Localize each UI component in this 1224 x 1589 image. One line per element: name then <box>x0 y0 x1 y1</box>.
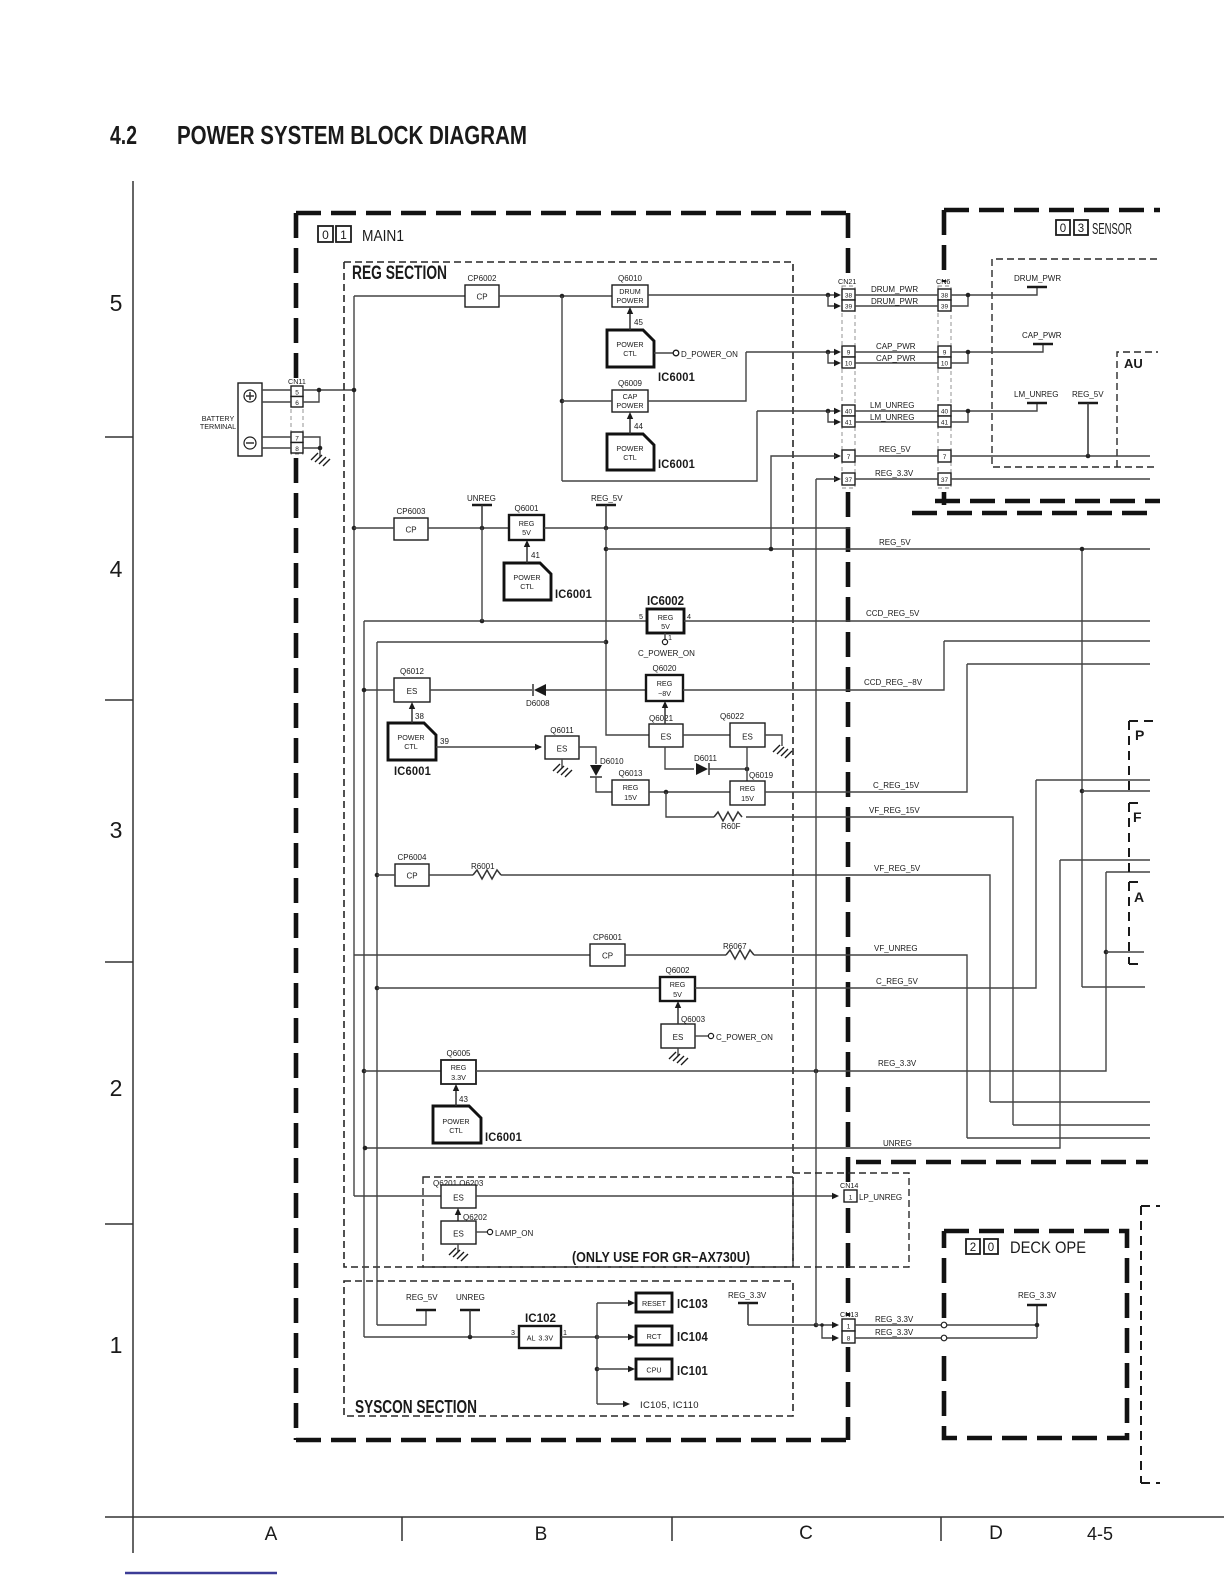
svg-text:CP6004: CP6004 <box>398 853 427 862</box>
svg-text:CN6: CN6 <box>936 277 950 286</box>
svg-text:ES: ES <box>407 687 418 696</box>
svg-text:LM_UNREG: LM_UNREG <box>870 413 914 422</box>
block IC104 RCT <box>636 1326 672 1345</box>
svg-text:REG_5V: REG_5V <box>406 1293 438 1302</box>
AUDIO sub-box corner <box>1117 352 1158 467</box>
wire rail to CP6002 <box>354 295 465 297</box>
wire to RESET <box>597 1302 631 1304</box>
node C_POWER_ON terminal a <box>662 639 667 644</box>
svg-text:DRUM_PWR: DRUM_PWR <box>871 285 918 294</box>
wire Q6009 output to cap riser <box>648 352 746 401</box>
svg-text:IC6001: IC6001 <box>394 766 431 778</box>
wire pin8 to ground <box>303 448 320 457</box>
connector CN6 <box>936 277 951 488</box>
svg-text:−8V: −8V <box>658 689 671 698</box>
svg-text:40: 40 <box>845 409 853 416</box>
svg-text:A: A <box>1134 889 1144 905</box>
svg-text:Q6020: Q6020 <box>652 664 677 673</box>
svg-text:4: 4 <box>110 556 123 582</box>
wire CN13 pin1 to deck <box>855 1324 1037 1326</box>
regulator Q6020 <box>646 675 683 701</box>
wire unreg rail into syscon <box>364 1336 519 1338</box>
svg-text:37: 37 <box>941 477 949 484</box>
op-amp U-ctl IC6001 power ctl 38 <box>388 723 436 760</box>
svg-text:TERMINAL: TERMINAL <box>200 422 236 431</box>
wire vf_unreg <box>754 955 967 1138</box>
node C_POWER_ON terminal b <box>708 1033 713 1038</box>
left ruler line <box>132 181 134 1553</box>
svg-text:4-5: 4-5 <box>1087 1524 1113 1544</box>
svg-text:REG: REG <box>740 784 756 793</box>
lower-right cut board dashed box <box>1141 1206 1160 1483</box>
wire Q6201 out lp_unreg <box>476 1195 835 1197</box>
diode D6008 <box>533 684 546 696</box>
svg-text:DRUM_PWR: DRUM_PWR <box>1014 274 1061 283</box>
node reg5v out tap <box>604 547 609 552</box>
resistor R6067 <box>726 950 754 959</box>
svg-text:0: 0 <box>988 1242 994 1254</box>
svg-text:REG_5V: REG_5V <box>879 538 911 547</box>
svg-text:B: B <box>535 1524 548 1545</box>
svg-text:AL 3.3V: AL 3.3V <box>527 1334 554 1343</box>
wire Q6003 gnd stem <box>677 1048 679 1056</box>
svg-text:Q6001: Q6001 <box>514 504 539 513</box>
board ref 03 squares <box>1056 220 1088 235</box>
wire CN13 pin8 to deck <box>855 1337 1037 1339</box>
power symbol LM_UNREG <box>1027 402 1047 404</box>
wire cn6 reg33 out <box>951 478 1150 480</box>
wire Q6019 out c_reg_15v <box>765 664 967 792</box>
wire ctl45 to D_POWER_ON <box>654 352 673 354</box>
wire cn21-cn6 drum b <box>855 305 938 307</box>
wire lm_unreg loop <box>562 411 757 481</box>
node q6012 tap <box>362 688 367 693</box>
board MAIN1 dashed border <box>296 213 848 1440</box>
svg-text:Q6012: Q6012 <box>400 667 425 676</box>
svg-text:CP: CP <box>405 526 416 535</box>
svg-text:REG SECTION: REG SECTION <box>352 263 447 284</box>
ruler tick cC <box>940 1517 942 1541</box>
wire Q6001 output <box>544 527 850 529</box>
diode D6011 <box>696 763 709 775</box>
power symbol deck REG_3.3V <box>1027 1304 1047 1306</box>
svg-text:3: 3 <box>110 817 123 843</box>
svg-text:ES: ES <box>661 733 672 742</box>
sub-box A bracket <box>1129 882 1144 964</box>
svg-text:CP6001: CP6001 <box>593 933 622 942</box>
wire lm_unreg to CN21 pin40 <box>757 410 836 412</box>
wire pin10 jog <box>828 352 836 363</box>
footer blue mark <box>125 1572 277 1575</box>
wire riser bottom out <box>1082 986 1145 988</box>
wire Q6020 out ccd-8v <box>683 641 944 690</box>
node pin41 branch <box>826 409 831 414</box>
wire Q6010 to CN21 pin38 <box>648 294 836 296</box>
svg-text:CPU: CPU <box>646 1366 661 1375</box>
svg-text:SENSOR: SENSOR <box>1092 221 1132 238</box>
wire rail to CP6003 <box>354 527 394 529</box>
wire Q6202 gnd stem <box>457 1244 459 1252</box>
node sensor vf tap <box>1104 950 1109 955</box>
svg-text:RESET: RESET <box>642 1299 667 1308</box>
svg-text:ES: ES <box>742 733 753 742</box>
svg-text:IC6001: IC6001 <box>658 459 695 471</box>
svg-text:REG: REG <box>519 519 535 528</box>
node drum join <box>966 293 971 298</box>
ruler tick cB <box>671 1517 673 1541</box>
wire deck reg3.3 stem <box>1036 1305 1038 1325</box>
svg-text:ES: ES <box>453 1230 464 1239</box>
wire unreg out <box>365 860 1060 1148</box>
transistor Q6010 drum power <box>612 285 648 307</box>
regulator Q6013 <box>612 780 649 805</box>
svg-text:Q6002: Q6002 <box>665 966 690 975</box>
node pin7 riser join <box>769 547 774 552</box>
wire CP6003 to Q6001 <box>428 527 509 529</box>
svg-text:POWER SYSTEM BLOCK DIAGRAM: POWER SYSTEM BLOCK DIAGRAM <box>177 120 527 150</box>
wire ctl43 drive arrow <box>455 1088 457 1106</box>
fuse CP6003 <box>394 518 428 540</box>
wire IC6002 out CCD_REG_5V <box>684 620 1150 622</box>
wire ctl41 drive arrow <box>526 544 528 563</box>
block IC103 RESET <box>636 1293 672 1312</box>
wire IC6002 pin1 stem <box>664 633 666 640</box>
svg-text:UNREG: UNREG <box>467 494 496 503</box>
svg-text:CN21: CN21 <box>838 277 856 286</box>
wire D6011 to Q6019 stem <box>709 768 747 770</box>
op-amp U-ctl IC6001 power ctl 43 <box>433 1106 481 1143</box>
wire vf_reg_5v exits right <box>990 1101 1150 1103</box>
node q6019 drive join <box>745 767 750 772</box>
wire vf_reg_15v <box>746 817 1013 1125</box>
node q6002 tap <box>375 986 380 991</box>
fuse CP6004 <box>395 864 429 886</box>
svg-text:LM_UNREG: LM_UNREG <box>870 401 914 410</box>
wire Q6013 to Q6019 <box>649 791 730 793</box>
wire pin7 jog down <box>303 437 320 448</box>
svg-text:CP: CP <box>602 952 613 961</box>
transistor Q6012 <box>394 678 430 702</box>
svg-text:C_REG_5V: C_REG_5V <box>876 977 918 986</box>
svg-text:44: 44 <box>634 422 643 431</box>
wire unreg rail vertical (battery feed) <box>353 296 355 1196</box>
wire CN13 pin8 jog <box>822 1325 835 1338</box>
ground q6003 <box>669 1052 688 1065</box>
wire ctl38 drive arrow <box>411 706 413 723</box>
wire pin7 riser <box>771 456 836 549</box>
wire cn6 drum b jog <box>951 295 968 306</box>
svg-text:1: 1 <box>668 633 672 642</box>
node cp6004 tap <box>375 873 380 878</box>
svg-text:ES: ES <box>557 745 568 754</box>
svg-text:CAP_PWR: CAP_PWR <box>876 354 916 363</box>
svg-text:0: 0 <box>322 228 329 242</box>
power symbol DRUM_PWR <box>1027 286 1047 288</box>
wire cap feed vertical <box>561 296 563 481</box>
svg-text:7: 7 <box>847 454 851 461</box>
section SYSCON dashed box <box>344 1281 793 1416</box>
wire cn6 cap out <box>951 344 1043 352</box>
wire Q6012 to D6008 <box>430 689 532 691</box>
regulator Q6019 <box>730 781 765 805</box>
connector CN21 <box>838 277 856 488</box>
wire Q6202 to LAMP_ON <box>476 1231 487 1233</box>
resistor R60F <box>714 812 742 821</box>
svg-text:LM_UNREG: LM_UNREG <box>1014 390 1058 399</box>
lower-right cut board top edge <box>856 1160 1148 1165</box>
ground q6022 <box>773 745 792 758</box>
power symbol syscon REG_5V <box>416 1309 436 1311</box>
power symbol syscon REG_3.3V <box>738 1302 758 1304</box>
node rail cp6003 tap <box>352 526 357 531</box>
svg-text:41: 41 <box>531 551 540 560</box>
arrows into CN21 <box>834 292 841 482</box>
svg-text:7: 7 <box>943 454 947 461</box>
wire battery plus to pin6 <box>262 401 291 403</box>
svg-text:UNREG: UNREG <box>456 1293 485 1302</box>
wire vf_reg_15v exits right <box>1013 1124 1150 1126</box>
power symbol syscon UNREG <box>460 1309 480 1311</box>
svg-text:REG_5V: REG_5V <box>1072 390 1104 399</box>
svg-text:CCD_REG_−8V: CCD_REG_−8V <box>864 678 923 687</box>
sub-box F bracket <box>1129 803 1141 875</box>
ground q6202 <box>449 1248 468 1261</box>
svg-text:IC102: IC102 <box>525 1313 556 1325</box>
node unreg bar tap <box>480 526 485 531</box>
bottom ruler line <box>105 1516 1224 1518</box>
wire c_reg_15v exits right <box>967 663 1150 665</box>
node battery junction <box>317 388 322 393</box>
svg-text:REG_3.3V: REG_3.3V <box>875 1315 914 1324</box>
wire battery minus to pin8 <box>262 447 291 449</box>
ruler tick r3 <box>105 961 133 963</box>
wire reg5v rail to CP6004 <box>377 874 395 876</box>
svg-text:REG_3.3V: REG_3.3V <box>875 1328 914 1337</box>
svg-text:1: 1 <box>847 1324 851 1331</box>
node r60f branch <box>664 790 669 795</box>
wire reg5v rail link <box>377 641 606 643</box>
wire IC102 output <box>561 1336 597 1338</box>
svg-text:LAMP_ON: LAMP_ON <box>495 1229 533 1238</box>
svg-text:5: 5 <box>639 612 643 621</box>
wire reg5v left rail <box>376 642 378 1325</box>
power symbol UNREG <box>472 504 492 506</box>
svg-text:REG_3.3V: REG_3.3V <box>878 1059 917 1068</box>
svg-text:CN14: CN14 <box>840 1181 858 1190</box>
svg-text:C: C <box>799 1523 813 1544</box>
wire battery minus to pin7 <box>262 436 291 438</box>
svg-text:R6001: R6001 <box>471 862 495 871</box>
svg-text:1: 1 <box>563 1328 567 1337</box>
svg-text:38: 38 <box>941 293 949 300</box>
wire pin41 jog <box>828 411 836 422</box>
wire cn21-cn6 cap b <box>855 362 938 364</box>
wire Q6021 to D6011 <box>665 747 694 769</box>
svg-text:P: P <box>1135 727 1144 743</box>
svg-text:15V: 15V <box>741 794 754 803</box>
op-amp U-ctl IC6001 power ctl 44 <box>607 434 654 470</box>
svg-text:DRUM_PWR: DRUM_PWR <box>871 297 918 306</box>
transistor Q6022 <box>730 723 765 747</box>
node reg5v bar tap <box>604 526 609 531</box>
ruler tick r2 <box>105 699 133 701</box>
wire reg5v rail to Q6002 <box>377 987 660 989</box>
wire rail to Q6201 <box>354 1195 441 1197</box>
wire riser branch 791 <box>1082 790 1150 792</box>
svg-text:41: 41 <box>941 420 949 427</box>
svg-text:IC6001: IC6001 <box>555 589 592 601</box>
svg-text:REG_5V: REG_5V <box>879 445 911 454</box>
svg-text:IC104: IC104 <box>677 1330 708 1344</box>
svg-text:Q6013: Q6013 <box>618 769 643 778</box>
regulator Q6005 <box>441 1060 476 1084</box>
node syscon fanout <box>595 1335 600 1340</box>
wire cn6 drum out <box>951 287 1037 295</box>
node pin8 jog <box>820 1323 824 1327</box>
power symbol REG_5V <box>596 504 616 506</box>
svg-text:R6067: R6067 <box>723 942 747 951</box>
svg-text:REG: REG <box>670 980 686 989</box>
svg-text:A: A <box>265 1524 278 1545</box>
wire Q6005 out reg_3.3v <box>476 872 1106 1071</box>
regulator Q6002 <box>660 977 695 1001</box>
op-amp U-ctl IC6001 power ctl 45 <box>607 330 654 367</box>
svg-text:3.3V: 3.3V <box>451 1073 466 1082</box>
wire Q6011 gnd stem <box>561 759 563 768</box>
wire unreg rail to Q6005 <box>364 1070 441 1072</box>
wire D6008 to Q6020 <box>546 689 646 691</box>
regulator IC102 <box>519 1326 561 1348</box>
wire r60f branch down <box>666 792 714 817</box>
node pin10 branch <box>826 350 831 355</box>
svg-text:C_POWER_ON: C_POWER_ON <box>638 649 695 658</box>
wire deck loop join <box>1036 1325 1038 1338</box>
svg-text:POWER: POWER <box>442 1117 469 1126</box>
svg-text:REG: REG <box>657 679 673 688</box>
wire Q6003 to C_POWER_ON <box>695 1035 708 1037</box>
node lm join <box>966 409 971 414</box>
svg-text:10: 10 <box>845 361 853 368</box>
svg-text:UNREG: UNREG <box>883 1139 912 1148</box>
wire CP6004 to R6001 <box>429 874 473 876</box>
transistor Q6003 <box>661 1024 695 1048</box>
svg-text:8: 8 <box>295 446 299 453</box>
wire to CPU <box>597 1368 631 1370</box>
node reg5v riser top <box>1080 547 1085 552</box>
ground q6011 <box>553 764 572 777</box>
node sensor reg5 tap <box>1086 454 1091 459</box>
svg-text:POWER: POWER <box>616 296 643 305</box>
board SENSOR dashed border <box>912 210 1160 513</box>
svg-text:39: 39 <box>440 737 449 746</box>
svg-text:POWER: POWER <box>513 573 540 582</box>
wire unreg to Q6012 <box>364 689 394 691</box>
wire ctl44 drive arrow <box>629 416 631 434</box>
svg-text:MAIN1: MAIN1 <box>362 228 404 245</box>
svg-text:Q6010: Q6010 <box>618 274 643 283</box>
svg-text:Q6009: Q6009 <box>618 379 643 388</box>
node deck border pass b <box>941 1335 947 1341</box>
node unreg stem join <box>480 619 485 624</box>
node fanout cpu tap <box>595 1367 600 1372</box>
svg-text:CTL: CTL <box>449 1126 463 1135</box>
svg-text:0: 0 <box>1060 223 1066 235</box>
svg-text:CP: CP <box>406 872 417 881</box>
ruler tick r1 <box>105 436 133 438</box>
wire cap_pwr to CN21 pin9 <box>746 351 836 353</box>
svg-text:POWER: POWER <box>616 340 643 349</box>
section Q6201 option dashed box <box>423 1177 793 1267</box>
regulator Q6001 <box>509 515 544 540</box>
wire q6003 drive arrow <box>677 1005 679 1024</box>
node reg5v rail link tap <box>604 640 609 645</box>
svg-text:DECK OPE: DECK OPE <box>1010 1238 1086 1257</box>
wire cn6 lm b jog <box>951 411 968 422</box>
svg-text:7: 7 <box>295 436 299 443</box>
svg-text:3: 3 <box>1078 223 1084 235</box>
diode D6010 <box>590 765 602 777</box>
svg-text:38: 38 <box>845 293 853 300</box>
node reg3.3 riser tap <box>814 1069 819 1074</box>
svg-text:9: 9 <box>943 350 947 357</box>
svg-text:1: 1 <box>849 1195 853 1202</box>
svg-text:D6011: D6011 <box>694 754 718 763</box>
regulator IC6002 <box>647 609 684 633</box>
transistor Q6011 <box>545 736 579 759</box>
svg-text:37: 37 <box>845 477 853 484</box>
svg-text:Q6019: Q6019 <box>749 771 774 780</box>
svg-text:3: 3 <box>511 1328 515 1337</box>
transistor Q6009 cap power <box>612 390 648 412</box>
node LAMP_ON terminal <box>487 1229 492 1234</box>
wire vf_reg_5v <box>501 875 990 1102</box>
board ref 20 squares <box>966 1239 998 1254</box>
board ref 01 squares <box>318 226 351 242</box>
wire cn6 lm out <box>951 403 1037 411</box>
svg-text:5: 5 <box>295 390 299 397</box>
svg-text:POWER: POWER <box>397 733 424 742</box>
node unreg out tap <box>363 1146 368 1151</box>
wire ctl q6021 drive arrow <box>664 705 666 724</box>
svg-text:SYSCON SECTION: SYSCON SECTION <box>355 1397 477 1417</box>
svg-text:D6008: D6008 <box>526 699 550 708</box>
svg-text:1: 1 <box>110 1332 123 1358</box>
svg-text:F: F <box>1133 809 1142 825</box>
wire vf_unreg exits right <box>967 1137 1150 1139</box>
svg-text:C_REG_15V: C_REG_15V <box>873 781 920 790</box>
node unreg bar tap syscon <box>468 1335 473 1340</box>
wire cn21-cn6 reg5 <box>855 455 938 457</box>
wire battery plus to pin5 <box>262 389 291 391</box>
svg-text:5V: 5V <box>673 990 682 999</box>
wire cn6 reg5 out <box>951 455 1150 457</box>
wire cn6 cap b jog <box>951 352 968 363</box>
node deck stem join <box>1035 1323 1040 1328</box>
wire cn21-cn6 reg33 <box>855 478 938 480</box>
svg-text:CTL: CTL <box>404 742 418 751</box>
svg-text:IC101: IC101 <box>677 1364 708 1378</box>
svg-text:5: 5 <box>110 290 123 316</box>
svg-text:45: 45 <box>634 318 643 327</box>
ruler tick r4 <box>105 1223 133 1225</box>
transistor Q6202 <box>441 1221 476 1244</box>
svg-text:ES: ES <box>453 1194 464 1203</box>
node q6005 tap <box>362 1069 367 1074</box>
svg-text:Q6022: Q6022 <box>720 712 745 721</box>
svg-text:CP6002: CP6002 <box>468 274 497 283</box>
svg-text:39: 39 <box>941 304 949 311</box>
svg-text:D: D <box>989 1523 1003 1544</box>
